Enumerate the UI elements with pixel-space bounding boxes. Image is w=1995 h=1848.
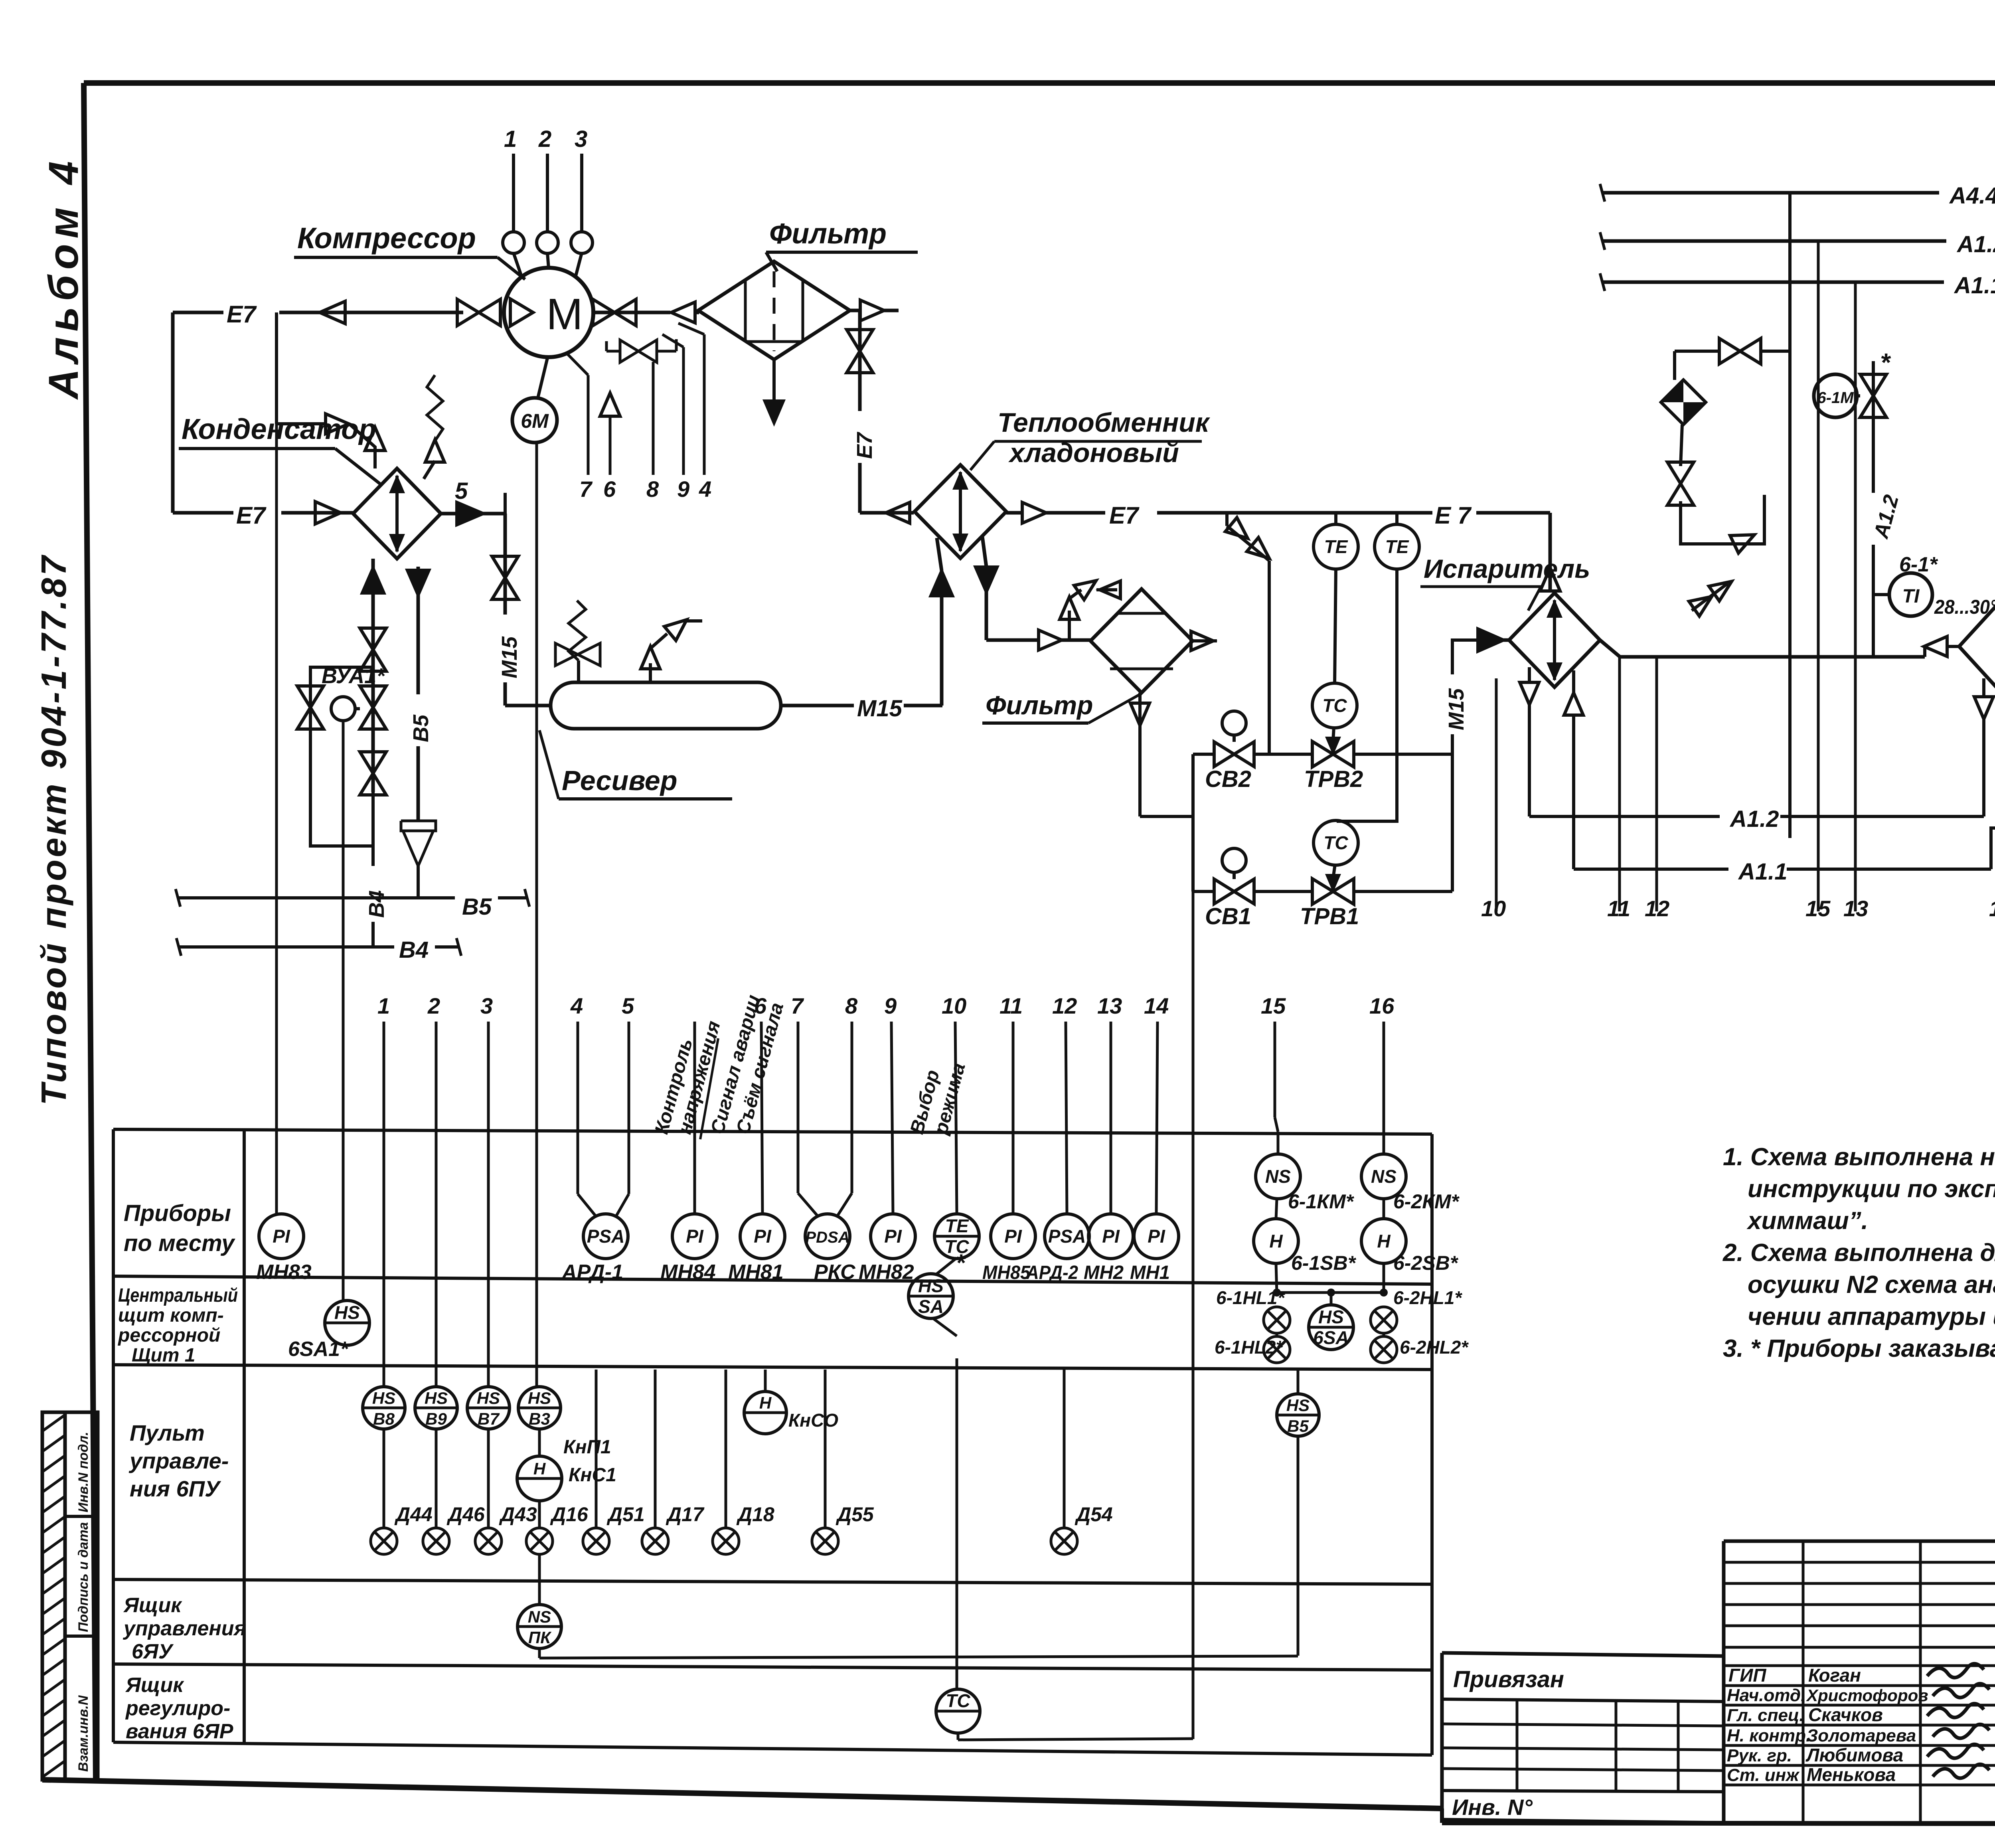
svg-text:13: 13	[1097, 993, 1122, 1018]
svg-text:NS: NS	[528, 1607, 551, 1626]
svg-text:6-2SВ*: 6-2SВ*	[1393, 1252, 1459, 1274]
wire 12 column with label	[1655, 657, 1658, 911]
svg-text:инструкции по эксплуатации” ОВ: инструкции по эксплуатации” ОВМ 15ТО ПО …	[1748, 1175, 1995, 1203]
svg-text:9: 9	[677, 476, 689, 502]
svg-text:Ящик: Ящик	[123, 1594, 182, 1617]
valve 2 on ВУА1 line	[360, 686, 386, 708]
line 5 into АРД-1	[628, 1022, 630, 1194]
svg-text:Золотарева: Золотарева	[1807, 1726, 1916, 1745]
phase terminal circle 1	[503, 232, 524, 253]
valve on M15 riser	[492, 556, 518, 578]
switch HS 6SA	[1309, 1305, 1353, 1350]
svg-text:В4: В4	[365, 890, 389, 918]
phase terminal circle 2	[537, 232, 558, 253]
svg-text:SА: SА	[918, 1296, 944, 1317]
condenser to funnel line В5	[417, 567, 420, 821]
svg-text:6-1SВ*: 6-1SВ*	[1291, 1252, 1357, 1274]
lamp Д17	[654, 1370, 657, 1528]
svg-text:СВ2: СВ2	[1205, 766, 1251, 792]
line 4 into АРД-1	[577, 1022, 579, 1194]
pipe E7 into condenser	[173, 511, 353, 515]
switch HS В3	[518, 1387, 561, 1429]
svg-text:Типовой проект 904-1-77.87: Типовой проект 904-1-77.87	[34, 553, 73, 1105]
drain header В5	[178, 896, 455, 899]
svg-text:Д43: Д43	[499, 1503, 537, 1526]
svg-text:РI: РI	[884, 1226, 902, 1247]
svg-text:Е7: Е7	[1109, 502, 1140, 529]
svg-text:6SА: 6SА	[1313, 1327, 1349, 1348]
svg-text:2: 2	[538, 126, 551, 152]
svg-text:Д18: Д18	[736, 1503, 774, 1526]
pipe into refrigerant exchanger	[860, 511, 914, 515]
svg-text:вания 6ЯР: вания 6ЯР	[126, 1720, 233, 1743]
svg-text:6SА1*: 6SА1*	[288, 1338, 349, 1361]
svg-text:НS: НS	[1318, 1306, 1344, 1327]
СВ loop vertical down to ТС loop	[1192, 891, 1195, 1739]
drain line В4 vertical	[371, 792, 375, 947]
svg-text:Фильтр: Фильтр	[986, 690, 1093, 720]
lamp Д46	[435, 1429, 438, 1528]
svg-text:Д44: Д44	[394, 1503, 433, 1526]
svg-text:15: 15	[1805, 896, 1831, 921]
wire А1.2 horizontal	[1529, 815, 1720, 818]
svg-text:13: 13	[1843, 896, 1868, 921]
svg-text:ТС: ТС	[1323, 832, 1348, 853]
svg-text:Д51: Д51	[606, 1503, 645, 1526]
svg-text:Привязан: Привязан	[1453, 1666, 1564, 1692]
capillary from ТЕ1 to ТС1	[1335, 568, 1336, 684]
capillary from ТЕ2 down	[1337, 568, 1397, 821]
selector HS SA with star	[937, 1258, 957, 1274]
switch HS В9	[435, 1022, 438, 1386]
drop from А4.4 bus	[1788, 193, 1792, 838]
svg-text:Е7: Е7	[236, 502, 267, 529]
svg-text:Подпись и дата: Подпись и дата	[76, 1522, 91, 1632]
valve 3 on ВУА1 line	[360, 752, 386, 773]
svg-text:6: 6	[603, 476, 616, 502]
check valve on E7 suction pipe	[320, 301, 345, 324]
svg-text:ТРВ2: ТРВ2	[1304, 766, 1363, 792]
pipe E7 from motor to left riser	[173, 311, 463, 314]
lamp Д43	[487, 1429, 490, 1528]
СВ2 right lead	[1254, 753, 1312, 756]
condenser top-left bypass with check valves	[275, 312, 278, 424]
evaporator stub right	[1572, 670, 1575, 693]
link ТС1 to ТРВ2	[1333, 727, 1334, 741]
lamp Д18	[725, 1370, 727, 1528]
thermostat ТС 2	[1314, 820, 1358, 865]
svg-text:1: 1	[377, 993, 390, 1018]
svg-text:Н: Н	[533, 1459, 546, 1478]
svg-text:6-2НL1*: 6-2НL1*	[1393, 1287, 1462, 1308]
svg-text:РI: РI	[1148, 1226, 1165, 1247]
connector line to ТС loop	[538, 1648, 541, 1658]
gauge PI МН83	[259, 1214, 304, 1259]
lamp Д55	[824, 1370, 827, 1528]
svg-text:М15: М15	[498, 636, 521, 678]
svg-text:6-2КМ*: 6-2КМ*	[1393, 1190, 1460, 1213]
gauge PI МН84	[693, 1022, 696, 1214]
ТРВ2 line to М15 vertical	[1355, 753, 1452, 756]
svg-text:11: 11	[999, 993, 1023, 1018]
vertical line from discharge to PI МН83	[275, 424, 278, 1214]
svg-text:6ЯУ: 6ЯУ	[132, 1640, 174, 1663]
svg-text:щит комп-: щит комп-	[118, 1305, 224, 1326]
svg-text:НS: НS	[334, 1302, 360, 1323]
drain funnel	[401, 821, 436, 831]
svg-text:А1.1: А1.1	[1738, 859, 1788, 885]
svg-text:М15: М15	[857, 696, 903, 721]
svg-text:регулиро-: регулиро-	[125, 1697, 230, 1720]
filter drier (black diamond)	[1673, 351, 1676, 380]
valve on suction line E7	[457, 299, 479, 326]
svg-text:ТЕ: ТЕ	[945, 1216, 969, 1236]
lamp 6-2НL2	[1383, 1333, 1385, 1336]
bus line А4.4	[1602, 191, 1939, 195]
svg-text:Христофоров: Христофоров	[1806, 1686, 1928, 1705]
svg-text:8: 8	[646, 476, 659, 502]
svg-text:химмаш”.: химмаш”.	[1746, 1207, 1868, 1235]
wire 13 column with label	[1854, 282, 1857, 911]
svg-text:16: 16	[1369, 993, 1395, 1018]
air filter diamond	[698, 261, 850, 360]
svg-text:РSА: РSА	[1048, 1226, 1086, 1247]
svg-text:5: 5	[622, 993, 634, 1018]
pipe Е7 to evaporator	[1045, 511, 1550, 515]
wire 15 column with label	[1817, 241, 1820, 911]
svg-text:РDSА: РDSА	[805, 1229, 849, 1246]
svg-text:Д46: Д46	[446, 1503, 485, 1526]
svg-text:12: 12	[1052, 993, 1077, 1018]
riser E7 left	[171, 312, 175, 513]
svg-text:Компрессор: Компрессор	[297, 221, 476, 255]
svg-text:5: 5	[455, 478, 468, 504]
svg-text:ТРВ1: ТРВ1	[1300, 903, 1359, 929]
svg-text:Н. контр.: Н. контр.	[1727, 1726, 1811, 1745]
svg-text:*: *	[956, 1249, 966, 1276]
label В5 rotated	[404, 694, 432, 746]
svg-text:Щит 1: Щит 1	[132, 1345, 196, 1366]
svg-text:Гл. спец.: Гл. спец.	[1727, 1706, 1804, 1725]
svg-text:по месту: по месту	[124, 1230, 235, 1256]
svg-text:Рук. гр.: Рук. гр.	[1727, 1746, 1792, 1765]
expansion valve ТРВ2	[1312, 741, 1333, 767]
evaporator drain stub left (wire 10)	[1528, 667, 1531, 682]
air-air exchanger inlet check	[1924, 636, 1947, 656]
svg-text:NS: NS	[1265, 1166, 1291, 1187]
pipe M15 into receiver	[505, 704, 551, 708]
svg-text:РSА: РSА	[587, 1226, 625, 1247]
svg-text:МН84: МН84	[660, 1261, 716, 1284]
svg-text:РI: РI	[686, 1226, 704, 1247]
receiver vessel	[551, 682, 781, 729]
signature table frame	[1724, 1540, 1995, 1543]
М15 riser into exchanger bottom-left	[940, 571, 944, 706]
svg-text:чении аппаратуры индексом „7”: чении аппаратуры индексом „7”.	[1748, 1303, 1995, 1330]
motor/compressor M circle	[504, 268, 593, 357]
switch HS В7	[487, 1022, 490, 1386]
svg-text:6-1НL1*: 6-1НL1*	[1216, 1287, 1285, 1308]
ТРВ1 line to М15 vertical	[1355, 890, 1452, 893]
svg-text:Конденсатор: Конденсатор	[182, 413, 376, 445]
stamp column hatched bar	[42, 1412, 65, 1780]
svg-text:Д54: Д54	[1075, 1503, 1113, 1526]
svg-text:4: 4	[699, 476, 711, 502]
svg-text:Пульт: Пульт	[130, 1420, 205, 1445]
bus line А1.1	[1602, 281, 1944, 284]
check valve condenser inlet	[315, 502, 341, 524]
sensor ТЕ 1	[1314, 524, 1358, 569]
second filter outlet check valve	[1191, 631, 1213, 650]
svg-text:НS: НS	[918, 1275, 944, 1296]
svg-text:Менькова: Менькова	[1807, 1764, 1896, 1785]
svg-text:РI: РI	[1102, 1226, 1120, 1247]
svg-text:В5: В5	[1287, 1417, 1309, 1435]
СВ1 right lead	[1254, 890, 1312, 893]
svg-text:В9: В9	[425, 1409, 447, 1428]
svg-text:14: 14	[1989, 896, 1995, 921]
lamp Д51	[595, 1370, 598, 1528]
svg-text:ния 6ПУ: ния 6ПУ	[130, 1476, 221, 1501]
regulator ТС in 6ЯР	[956, 1358, 958, 1689]
svg-text:КнС1: КнС1	[569, 1465, 616, 1486]
svg-text:Любимова: Любимова	[1805, 1745, 1903, 1765]
label В4 rotated	[359, 866, 387, 922]
svg-text:В5: В5	[409, 714, 433, 742]
wire 10 column with label	[1495, 678, 1498, 911]
svg-text:СВ1: СВ1	[1205, 903, 1251, 929]
svg-text:ТС: ТС	[1322, 695, 1347, 716]
label М15 rotated	[491, 615, 519, 682]
svg-text:НS: НS	[372, 1389, 395, 1407]
svg-text:В5: В5	[462, 894, 492, 920]
air-air heat exchanger diamond	[1959, 591, 1995, 702]
switch HS 6SA1	[344, 1300, 347, 1301]
label Е7 on suction pipe	[223, 298, 279, 326]
svg-text:НS: НS	[477, 1389, 500, 1407]
svg-text:НS: НS	[1286, 1396, 1310, 1415]
svg-text:Д55: Д55	[836, 1503, 874, 1526]
gauge circle ВУА1	[331, 697, 355, 721]
М15 line from receiver to exchanger	[781, 704, 942, 708]
refrigerant heat exchanger diamond	[915, 465, 1006, 558]
second filter drain	[1138, 693, 1142, 816]
svg-text:6-1НL2*: 6-1НL2*	[1215, 1337, 1284, 1358]
air line from evaporator to air-air exchanger	[1600, 640, 1925, 657]
svg-text:РI: РI	[1004, 1226, 1022, 1247]
pipe taps for ТЕ sensors	[1334, 513, 1337, 525]
valve on discharge line	[593, 299, 614, 326]
svg-text:АРД-1: АРД-1	[561, 1261, 623, 1284]
condenser heat exchanger	[353, 468, 441, 559]
wire 11 column with label	[1618, 657, 1621, 911]
svg-text:Взам.инв.N: Взам.инв.N	[76, 1695, 91, 1772]
oil wire stubs 7 6 8 9 4	[587, 375, 590, 475]
oil gauge 6М circle	[512, 398, 557, 443]
wire 15 into column	[1274, 1022, 1276, 1117]
condenser drain arrow up (to ВУА1 line)	[371, 559, 375, 792]
svg-text:6-1М: 6-1М	[1817, 389, 1854, 407]
valve on drier line	[1667, 462, 1694, 484]
switch HS В8	[383, 1022, 385, 1386]
svg-text:Ресивер: Ресивер	[562, 765, 677, 796]
svg-text:14: 14	[1144, 993, 1169, 1018]
riser Е7 down to refrigerant exchanger	[858, 310, 862, 513]
svg-text:осушки N2 схема аналогична: осушки N2 схема аналогична с заменой инд…	[1748, 1271, 1995, 1299]
svg-text:В8: В8	[373, 1409, 395, 1428]
svg-text:Скачков: Скачков	[1808, 1704, 1883, 1725]
bypass valve on loop	[297, 686, 324, 708]
svg-text:Ящик: Ящик	[125, 1674, 184, 1697]
label Е7 rotated on riser	[846, 411, 874, 463]
svg-text:В3: В3	[529, 1409, 550, 1428]
check valve after filter	[860, 300, 884, 321]
wire stub 5	[504, 493, 507, 514]
compressor suction triangle inside M	[510, 299, 533, 326]
svg-text:КнП1: КнП1	[563, 1437, 611, 1458]
svg-text:Альбом 4: Альбом 4	[40, 156, 87, 400]
hot gas out of exchanger bottom-right	[982, 537, 986, 567]
valve 1 on ВУА1 line	[360, 628, 386, 650]
receiver relief valve with spring	[577, 660, 580, 682]
М15 feed arrow into evaporator	[1452, 640, 1476, 657]
wire 16 into column	[1383, 1022, 1385, 1132]
bus line А1.2	[1602, 239, 1946, 243]
svg-text:РI: РI	[754, 1226, 772, 1247]
svg-text:Д16: Д16	[550, 1503, 589, 1526]
phase wire 2	[546, 154, 549, 232]
svg-text:М15: М15	[1444, 688, 1468, 730]
border frame bottom	[42, 1780, 1442, 1808]
lamp 6-1НL2	[1276, 1333, 1278, 1336]
phase wire 3	[580, 154, 583, 232]
second filter diamond	[1090, 589, 1193, 693]
svg-text:1. Схема выполнена на основани: 1. Схема выполнена на основании „Техниче…	[1723, 1143, 1995, 1171]
svg-text:ТЕ: ТЕ	[1324, 536, 1348, 557]
stamp column boxes	[65, 1412, 98, 1780]
vent cluster above second filter inlet	[1068, 611, 1071, 640]
svg-text:А1.2: А1.2	[1729, 806, 1779, 832]
label А1.2 rotated on drop	[1859, 493, 1887, 545]
svg-text:Е7: Е7	[227, 301, 257, 328]
line to solenoid valve	[1681, 425, 1682, 466]
svg-text:*: *	[1880, 348, 1891, 377]
svg-text:NS: NS	[1371, 1166, 1396, 1187]
svg-text:Испаритель: Испаритель	[1424, 554, 1590, 583]
СВ2 left lead down to СВ1	[1193, 753, 1214, 756]
check valve to second filter	[1039, 630, 1062, 650]
line from 6М down to panel (column В3)	[535, 443, 538, 1386]
valve 6-1М on А1.2 drop	[1872, 361, 1875, 657]
border frame left	[84, 83, 96, 1781]
svg-text:А4.4: А4.4	[1949, 183, 1995, 209]
svg-text:РI: РI	[273, 1226, 290, 1247]
svg-text:управле-: управле-	[128, 1448, 229, 1473]
lamp Д44	[383, 1429, 385, 1528]
button Н 6-1SВ	[1254, 1219, 1298, 1263]
piping corner under drier	[1681, 495, 1764, 544]
svg-text:15: 15	[1261, 993, 1286, 1018]
svg-text:12: 12	[1645, 896, 1669, 921]
svg-text:ПК: ПК	[528, 1628, 552, 1647]
check valve at refrigerant exchanger inlet	[886, 502, 910, 523]
svg-text:Е7: Е7	[853, 431, 877, 459]
svg-text:3: 3	[480, 993, 493, 1018]
svg-text:А1.1: А1.1	[1954, 273, 1995, 298]
starter NS 6-2КМ	[1383, 1132, 1385, 1154]
check valve on corner	[1730, 535, 1754, 553]
svg-text:Инв. N°: Инв. N°	[1452, 1795, 1533, 1820]
phase wire 1	[512, 154, 515, 232]
svg-text:МН82: МН82	[859, 1261, 914, 1284]
svg-text:6-1*: 6-1*	[1899, 553, 1938, 576]
svg-text:7: 7	[579, 476, 593, 502]
svg-text:А1.2: А1.2	[1956, 231, 1995, 257]
svg-text:2: 2	[427, 993, 440, 1018]
check pair lower	[1692, 583, 1728, 611]
svg-text:Центральный: Центральный	[118, 1285, 238, 1306]
starter NS 6-1КМ	[1277, 1132, 1280, 1154]
svg-text:Теплообменник: Теплообменник	[997, 407, 1211, 438]
label М15 rotated at evaporator	[1439, 674, 1467, 734]
sensor ТЕ 2	[1375, 524, 1419, 569]
svg-text:10: 10	[1481, 896, 1506, 921]
svg-text:11: 11	[1607, 896, 1630, 921]
alarm PSA АРД-1	[583, 1214, 628, 1259]
svg-text:НS: НS	[425, 1389, 448, 1407]
condenser outlet arrow (node 5)	[457, 502, 483, 525]
expansion valve ТРВ1	[1312, 879, 1333, 904]
bypass loop around ВУА1 valves	[310, 667, 373, 846]
svg-text:Приборы: Приборы	[124, 1200, 231, 1226]
receiver angle valve	[555, 643, 578, 666]
svg-text:Н: Н	[759, 1393, 772, 1412]
svg-text:10: 10	[942, 993, 966, 1018]
svg-text:Д17: Д17	[666, 1503, 705, 1526]
svg-text:МН1: МН1	[1130, 1262, 1170, 1283]
button Н КнП1 КнС1	[538, 1429, 541, 1456]
svg-text:Е 7: Е 7	[1435, 502, 1472, 529]
svg-text:3: 3	[575, 126, 587, 152]
lamp Д54	[1063, 1370, 1066, 1528]
signature squiggles	[1927, 1664, 1984, 1678]
svg-text:МН85: МН85	[982, 1262, 1031, 1283]
svg-text:В4: В4	[399, 937, 429, 963]
button Н 6-2SВ	[1361, 1219, 1406, 1263]
solenoid valve СВ1	[1214, 879, 1234, 904]
valve on Е7 riser	[847, 330, 873, 351]
svg-text:Коган: Коган	[1808, 1665, 1861, 1686]
svg-text:Н: Н	[1377, 1231, 1391, 1251]
svg-text:8: 8	[845, 993, 858, 1018]
phase terminal circle 3	[571, 232, 593, 253]
svg-text:2. Схема выполнена для установ: 2. Схема выполнена для установки осушки …	[1722, 1239, 1995, 1267]
attachment box Привязан	[1442, 1653, 1724, 1656]
svg-text:Ст. инж: Ст. инж	[1727, 1765, 1800, 1785]
svg-text:КнСО: КнСО	[788, 1410, 838, 1431]
СВ1 left lead	[1193, 890, 1214, 893]
border frame top	[84, 80, 1995, 86]
drain to СВ loop	[1140, 815, 1193, 818]
button Н КнСО	[764, 1370, 767, 1391]
svg-text:6М: 6М	[521, 410, 549, 432]
pipe to second filter	[986, 638, 1040, 642]
filter drain arrow	[772, 360, 776, 423]
svg-text:6-1КМ*: 6-1КМ*	[1288, 1190, 1355, 1213]
svg-text:МН83: МН83	[256, 1261, 312, 1284]
drain header В4	[179, 945, 394, 949]
check valve before filter	[671, 302, 695, 323]
